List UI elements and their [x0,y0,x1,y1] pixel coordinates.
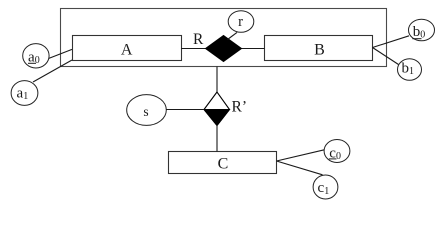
wire frame bottom to R' [216,67,218,93]
wire s to R' [166,109,204,111]
relationship diamond R [206,36,242,62]
attribute circle b0 [409,19,435,41]
svg-text:b: b [413,24,421,40]
svg-text:s: s [143,104,148,119]
wire R to B [242,48,265,50]
wire a0 to A [49,49,73,58]
svg-text:C: C [218,156,229,173]
wire b1 to B [373,48,399,65]
attribute circle c1 [313,175,338,199]
svg-text:B: B [314,41,325,58]
svg-text:1: 1 [324,186,329,197]
entity B box [265,36,373,61]
attribute circle r [228,11,254,33]
wire R' to C [216,126,218,152]
svg-text:1: 1 [23,91,28,102]
attribute circle b1 [398,59,422,81]
svg-text:r: r [238,14,243,30]
svg-text:0: 0 [35,55,40,66]
svg-text:b: b [402,60,410,76]
wire A to R [181,48,206,50]
svg-text:0: 0 [336,151,341,162]
entity C box [169,152,277,174]
relationship diamond R' (half filled) [204,92,230,126]
outer frame [61,9,387,67]
attribute circle a0 [23,44,49,68]
svg-text:R’: R’ [232,99,248,116]
wire a1 to A [33,60,72,82]
attribute circle a1 [11,81,38,106]
svg-text:R: R [193,31,204,48]
svg-text:1: 1 [409,66,414,77]
entity A box [73,36,182,61]
svg-text:A: A [121,41,133,58]
attribute circle s [127,95,167,126]
wire r to R [228,32,238,39]
wire c1 to C [277,161,323,175]
wire b0 to B [373,36,410,48]
wire c0 to C [277,150,325,161]
attribute circle c0 [324,140,350,163]
